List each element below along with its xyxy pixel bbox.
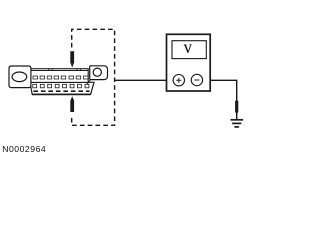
left ear [9, 66, 31, 88]
upper band lip line [31, 70, 88, 72]
connector upper band [31, 69, 88, 83]
dark slot dashes under bottom pins [33, 90, 89, 92]
voltmeter box [167, 34, 211, 91]
connector DLC lower trapezoid band [30, 82, 94, 94]
dashed jumper box [72, 29, 115, 125]
wire: voltmeter to ground [210, 80, 237, 119]
right ear bevel to band [87, 80, 91, 85]
V label (italic serif V drawn as strokes) [184, 45, 192, 53]
wire: dashed box to voltmeter [115, 79, 167, 81]
lip key notches [49, 69, 81, 71]
top pin row [33, 76, 88, 79]
plus terminal [173, 75, 184, 86]
bottom pin row [33, 84, 89, 88]
ground symbol [231, 120, 244, 127]
voltmeter display [172, 41, 206, 59]
left ear oval hole [12, 72, 27, 82]
minus terminal [191, 74, 202, 85]
top probe arrow [70, 51, 74, 67]
figure label [2, 144, 46, 154]
right ear circle hole [93, 68, 101, 76]
probe on ground wire [235, 101, 238, 116]
bottom probe arrow [70, 96, 74, 112]
right ear [90, 66, 108, 80]
